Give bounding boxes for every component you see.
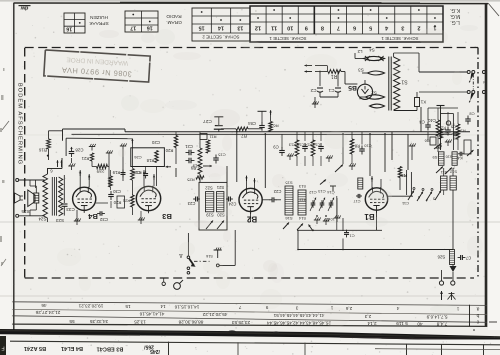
svg-text:2: 2 bbox=[481, 81, 487, 84]
svg-text:K4: K4 bbox=[457, 156, 463, 161]
svg-text:M.G.: M.G. bbox=[450, 13, 461, 19]
svg-text:R9: R9 bbox=[190, 166, 196, 171]
svg-text:34,32,35: 34,32,35 bbox=[89, 319, 108, 324]
svg-text:S16: S16 bbox=[206, 254, 213, 258]
svg-text:C12: C12 bbox=[309, 190, 317, 195]
svg-text:7: 7 bbox=[238, 305, 241, 310]
svg-text:14: 14 bbox=[160, 304, 166, 309]
svg-text:C1: C1 bbox=[328, 88, 334, 93]
svg-text:C32: C32 bbox=[99, 217, 108, 222]
svg-text:S14: S14 bbox=[298, 216, 306, 221]
svg-text:GRAM.: GRAM. bbox=[166, 19, 182, 25]
svg-text:R8: R8 bbox=[354, 144, 360, 149]
svg-text:C20: C20 bbox=[151, 140, 160, 145]
svg-text:12: 12 bbox=[255, 25, 261, 31]
svg-text:C33: C33 bbox=[66, 207, 75, 212]
svg-text:S65: S65 bbox=[442, 131, 450, 136]
svg-text:17: 17 bbox=[130, 25, 136, 31]
svg-text:HUIZEN: HUIZEN bbox=[90, 14, 108, 20]
svg-text:C4: C4 bbox=[419, 120, 425, 125]
svg-text:C18: C18 bbox=[132, 170, 140, 175]
svg-text:SCHAK. SECTIE 1: SCHAK. SECTIE 1 bbox=[269, 36, 307, 41]
svg-text:C15: C15 bbox=[218, 153, 226, 158]
svg-text:R14: R14 bbox=[304, 143, 312, 148]
svg-text:9: 9 bbox=[305, 25, 308, 31]
svg-text:C84: C84 bbox=[247, 121, 255, 126]
svg-text:C21: C21 bbox=[184, 144, 192, 149]
svg-text:19,20,23,21: 19,20,23,21 bbox=[78, 304, 103, 309]
svg-text:B2: B2 bbox=[246, 215, 257, 224]
svg-text:10: 10 bbox=[287, 25, 293, 31]
svg-text:S9: S9 bbox=[432, 155, 438, 160]
svg-text:K.G.: K.G. bbox=[450, 7, 460, 13]
svg-text:23,25,53: 23,25,53 bbox=[231, 320, 250, 325]
svg-text:C1: C1 bbox=[349, 234, 355, 239]
svg-text:/245: /245 bbox=[150, 348, 160, 354]
svg-text:R16: R16 bbox=[38, 147, 47, 152]
svg-text:5: 5 bbox=[369, 25, 372, 31]
svg-text:C22: C22 bbox=[273, 189, 281, 194]
svg-text:C30: C30 bbox=[112, 189, 120, 194]
svg-text:S4: S4 bbox=[369, 47, 375, 52]
svg-text:B3 EBC41: B3 EBC41 bbox=[97, 346, 124, 352]
svg-text:R1: R1 bbox=[331, 73, 338, 79]
svg-text:C8: C8 bbox=[469, 112, 475, 117]
svg-text:S23: S23 bbox=[55, 218, 64, 223]
svg-text:SCHAK. SECTIE 1: SCHAK. SECTIE 1 bbox=[381, 36, 419, 41]
svg-text:14: 14 bbox=[218, 25, 224, 31]
svg-text:C16: C16 bbox=[296, 143, 304, 148]
svg-text:41,44,43,45,44,45,44,51: 41,44,43,45,44,45,44,51 bbox=[273, 313, 324, 318]
svg-text:13,25: 13,25 bbox=[134, 319, 146, 324]
svg-text:5,7,14,6,9: 5,7,14,6,9 bbox=[426, 315, 447, 320]
svg-text:B3: B3 bbox=[162, 212, 172, 221]
svg-text:S16: S16 bbox=[285, 216, 293, 221]
svg-text:L.G.: L.G. bbox=[450, 19, 459, 25]
svg-text:C7: C7 bbox=[465, 256, 471, 261]
svg-text:R5: R5 bbox=[401, 173, 407, 178]
svg-text:C11: C11 bbox=[401, 201, 409, 206]
svg-text:B4: B4 bbox=[87, 212, 97, 221]
svg-text:15: 15 bbox=[125, 304, 131, 309]
svg-text:R19: R19 bbox=[112, 170, 120, 175]
svg-text:C8: C8 bbox=[453, 137, 459, 142]
svg-text:2: 2 bbox=[417, 25, 420, 31]
svg-text:46: 46 bbox=[41, 303, 47, 308]
svg-text:11: 11 bbox=[271, 25, 277, 31]
svg-text:8: 8 bbox=[321, 25, 324, 31]
svg-text:C17: C17 bbox=[312, 143, 320, 148]
svg-text:2,14: 2,14 bbox=[367, 321, 377, 326]
svg-text:14,16,15,16: 14,16,15,16 bbox=[174, 304, 199, 309]
svg-text:C28: C28 bbox=[75, 147, 84, 152]
svg-text:S10: S10 bbox=[446, 155, 453, 159]
svg-text:R21: R21 bbox=[122, 199, 130, 204]
svg-text:F: F bbox=[1, 345, 4, 351]
svg-text:C24: C24 bbox=[228, 202, 236, 207]
svg-text:S21: S21 bbox=[216, 185, 224, 190]
svg-text:6: 6 bbox=[353, 25, 356, 31]
svg-text:SCHAK. SECTIE 2: SCHAK. SECTIE 2 bbox=[202, 34, 240, 39]
svg-text:S26: S26 bbox=[437, 254, 445, 259]
svg-text:R18: R18 bbox=[146, 158, 154, 163]
svg-text:dw: dw bbox=[20, 5, 28, 11]
svg-text:55: 55 bbox=[69, 319, 75, 324]
svg-text:X1: X1 bbox=[420, 99, 426, 104]
svg-text:BODEM AFSCHERMING: BODEM AFSCHERMING bbox=[17, 83, 23, 165]
svg-text:22R: 22R bbox=[96, 168, 104, 173]
svg-text:C26: C26 bbox=[134, 155, 142, 160]
svg-text:C2: C2 bbox=[310, 88, 316, 93]
svg-text:a: a bbox=[476, 305, 479, 311]
svg-text:3: 3 bbox=[401, 25, 404, 31]
svg-text:C23: C23 bbox=[187, 201, 195, 206]
svg-text:RADIO: RADIO bbox=[166, 13, 181, 19]
svg-text:R6: R6 bbox=[425, 139, 430, 143]
svg-text:S1: S1 bbox=[401, 78, 407, 84]
svg-text:7: 7 bbox=[337, 25, 340, 31]
svg-text:R12: R12 bbox=[300, 198, 307, 202]
svg-text:16: 16 bbox=[147, 25, 153, 31]
svg-text:2,3: 2,3 bbox=[364, 314, 371, 319]
svg-text:S13: S13 bbox=[298, 184, 306, 189]
svg-text:C40: C40 bbox=[427, 118, 435, 123]
svg-text:R3: R3 bbox=[460, 129, 466, 134]
svg-text:R25: R25 bbox=[187, 178, 195, 183]
svg-text:SPRAAK: SPRAAK bbox=[88, 20, 108, 26]
svg-text:S2: S2 bbox=[371, 90, 377, 95]
svg-text:S24: S24 bbox=[38, 216, 47, 221]
svg-text:88,86,30,28: 88,86,30,28 bbox=[178, 320, 203, 325]
svg-text:B5 AZ41: B5 AZ41 bbox=[24, 345, 46, 351]
svg-text:R20: R20 bbox=[165, 148, 173, 153]
svg-text:45,20,21,22: 45,20,21,22 bbox=[202, 312, 227, 317]
svg-text:25,45,48,43,44,42,45,46,45,44: 25,45,48,43,44,42,45,46,45,44 bbox=[267, 320, 331, 325]
svg-text:S22: S22 bbox=[205, 186, 213, 191]
svg-text:R7: R7 bbox=[241, 133, 247, 138]
svg-text:R6: R6 bbox=[273, 124, 279, 129]
svg-text:C13: C13 bbox=[318, 189, 326, 194]
svg-text:2,6: 2,6 bbox=[345, 306, 352, 311]
svg-text:5 119: 5 119 bbox=[396, 321, 408, 326]
svg-text:S3: S3 bbox=[358, 67, 364, 72]
svg-text:C10: C10 bbox=[364, 144, 372, 149]
svg-text:b: b bbox=[476, 312, 479, 318]
svg-text:S19: S19 bbox=[206, 213, 214, 218]
svg-text:L2: L2 bbox=[357, 49, 362, 54]
svg-text:S25: S25 bbox=[21, 209, 30, 214]
svg-text:13: 13 bbox=[237, 25, 243, 31]
svg-text:C9: C9 bbox=[273, 145, 279, 150]
svg-text:C17: C17 bbox=[354, 199, 361, 203]
svg-text:R11: R11 bbox=[209, 135, 217, 140]
svg-text:B5: B5 bbox=[348, 84, 357, 91]
svg-text:16: 16 bbox=[66, 26, 72, 32]
svg-text:4: 4 bbox=[396, 306, 399, 311]
svg-text:R21: R21 bbox=[81, 156, 89, 161]
svg-text:40: 40 bbox=[417, 321, 423, 326]
svg-text:3: 3 bbox=[295, 305, 298, 310]
svg-text:7,4,8: 7,4,8 bbox=[436, 321, 447, 326]
svg-text:R13: R13 bbox=[288, 143, 296, 148]
svg-text:21,24,27,26: 21,24,27,26 bbox=[35, 310, 60, 315]
